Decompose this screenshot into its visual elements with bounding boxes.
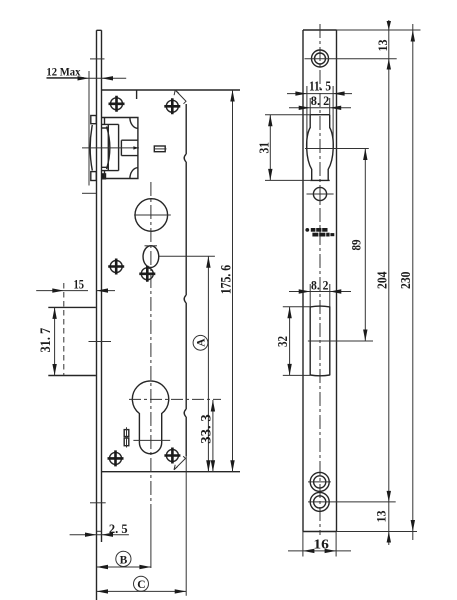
svg-text:31. 7: 31. 7 [38,328,54,353]
oval top tick [145,245,158,247]
tick below latch on faceplate [82,192,96,194]
latch guide bottom edge [102,170,119,172]
dim 32 arrows [287,307,291,376]
latch housing [102,118,138,179]
dim 8.2 top line [289,107,351,109]
deadbolt centre tick front [308,340,373,342]
bottom screw hole 1 outer [310,472,329,491]
clip detail upper rect [124,430,129,437]
deadbolt box bottom edge [48,375,96,377]
svg-text:33. 3: 33. 3 [199,414,215,444]
latch spindle rect [121,140,137,155]
svg-text:8. 2: 8. 2 [311,277,329,292]
latch guide top edge [102,123,119,125]
screw M2 mid-centre [139,266,155,282]
dim 204 arrows [387,491,391,502]
svg-text:89: 89 [350,240,364,251]
svg-text:13: 13 [375,39,390,51]
latch bolt bulge left [307,128,312,181]
svg-text:230: 230 [399,272,414,290]
latch opening bottom edge [310,179,330,181]
dim 31.7 line [54,307,56,375]
latch top-right tab line [104,118,106,125]
notch 1 on right edge [184,154,186,162]
dim 12 Max underline [47,77,84,79]
dim 2.5 line [70,534,129,536]
top screw hole inner [315,53,326,64]
top hole centre line extension [305,58,397,60]
top screw hole outer [312,50,329,67]
follower horizontal centre line [134,214,171,216]
case partition stub below top edge [136,90,138,99]
svg-text:A: A [196,338,208,347]
svg-text:8. 2: 8. 2 [311,93,330,108]
latch guide short dividers [102,128,109,167]
dim 13/204/13 shared line [388,20,390,545]
latch centre line front [305,148,369,150]
dim 8.2 lower line [289,291,351,293]
svg-text:15: 15 [74,277,85,292]
dim 11.5 arrows [295,91,344,95]
latch spindle arrowhead [133,146,138,149]
bottom screw hole 1 tick [308,481,331,483]
dim 8.2 lower arrows [299,289,342,293]
dim 31 arrows [268,115,272,181]
clip horizontal line [133,439,170,441]
mid screw hole ticks [307,186,334,203]
dim 230 line [412,24,414,540]
break mark bottom-right corner [174,456,186,470]
break mark top-right corner [174,90,186,104]
centerline tick deadbolt on faceplate [89,341,112,343]
dim 12 Max extension line [88,71,90,186]
logo stamp row1 [305,228,334,237]
latch bolt lens left arc [90,125,92,171]
latch top-left tab [91,116,97,124]
svg-text:175. 6: 175. 6 [218,265,234,295]
latch centre line [82,147,139,149]
latch opening front view [310,115,330,128]
dim 16 arrows [303,549,336,553]
oval cam [143,246,159,268]
lock case right edge [185,104,187,456]
bottom screw hole 1 inner [314,476,326,488]
dim 89 arrows [363,149,367,342]
lock case top edge [102,89,241,91]
front plate bottom edge + extension [303,531,337,533]
dim 175.6 arrows [230,90,234,472]
dim 12 Max line [47,77,127,79]
deadbolt opening bottom edge [310,374,330,377]
dim C line [97,590,187,592]
dim C circle [134,576,149,591]
dim 33.3 line [212,400,214,472]
dim A arrows [206,256,210,472]
dim 31.7 arrows [52,307,56,375]
screw B1 bottom-left [108,450,124,466]
dim 16 line [288,550,351,552]
small tick above 2.5 dim [97,530,102,532]
dim 12 Max arrows [78,76,114,80]
svg-text:13: 13 [373,510,388,522]
dim B arrows [97,565,151,569]
latch guide verticals [108,124,118,170]
dim A circle [193,335,208,350]
latch housing corner arc bottom-right [130,168,138,179]
latch housing corner arc top-right [130,118,138,129]
screw M1 mid-left [108,259,124,275]
dim 32 line [289,307,291,376]
dim 11.5 line [287,93,352,95]
svg-text:11. 5: 11. 5 [309,79,331,94]
centerline tick top on faceplate [90,58,105,60]
deadbolt opening front view [310,306,330,375]
front view centre line [319,24,321,535]
dim A line (oval centre to case bottom) [207,256,209,472]
svg-text:204: 204 [375,272,390,290]
notch 2 on right edge [184,295,186,303]
dim B circle [116,551,131,566]
clip detail lower rect [124,438,129,446]
bottom screw hole 2 outer [310,492,329,511]
euro cylinder profile [132,381,168,454]
deadbolt opening top edge [310,305,330,308]
follower circle [135,199,168,232]
latch bolt bulge right [328,128,333,181]
dim 89 line [364,149,366,342]
latch bottom black block [102,173,106,179]
mid screw hole front [313,187,326,200]
svg-text:31: 31 [257,142,272,154]
latch bolt lens right arc [107,127,110,170]
main vertical centre line left view [150,182,152,505]
latch bottom-right tab line [104,171,106,179]
dim 11.5 extension lines [307,86,333,149]
svg-text:32: 32 [275,336,290,347]
dim C arrows [97,589,187,593]
dim 31 extension lines [265,115,310,181]
small slot in case [154,146,166,152]
notch 3 on right edge [184,409,186,417]
screw T1 top-left [109,96,125,112]
dim 13 bottom arrows [387,532,391,543]
svg-text:12 Max: 12 Max [46,67,80,79]
bottom screw hole 2 tick [308,501,396,503]
clip stem [126,427,128,447]
svg-text:B: B [120,554,128,566]
dim 31 line [269,115,271,181]
dim B line [97,566,151,568]
dim 15 arrows [52,288,108,292]
dim 8.2 lower extension lines [310,284,330,306]
front plate top edge + extension [303,29,337,31]
latch bottom-left tab [91,172,97,181]
dim 15 line [36,290,115,292]
oval centre extension line to dim A [159,255,215,257]
bottom screw hole 2 inner [314,496,326,508]
case right edge lower extension for dim C [185,456,187,596]
dim 2.5 arrows [85,533,113,537]
deadbolt box top edge [48,306,96,308]
dim 32 extension lines [283,307,310,376]
dim 8.2 top extension lines [310,98,330,115]
centerline tick bottom on faceplate [90,502,106,504]
screw B2 bottom-right [164,448,180,464]
deadbolt dashed face line [63,283,65,376]
lock case bottom edge [102,471,241,473]
dim 13 top arrows [387,21,391,70]
faceplate front view outline [303,30,337,532]
dim 8.2 top arrows [299,106,342,110]
dim 230 arrows [411,30,415,532]
faceplate side view [97,30,102,600]
dim 33.3 arrows [211,400,215,472]
screw T2 top-right [164,98,180,114]
dim 16 extension lines [303,532,336,557]
cylinder horizontal centre line [129,398,221,400]
svg-text:C: C [137,579,145,591]
dim 175.6 line [232,90,234,472]
